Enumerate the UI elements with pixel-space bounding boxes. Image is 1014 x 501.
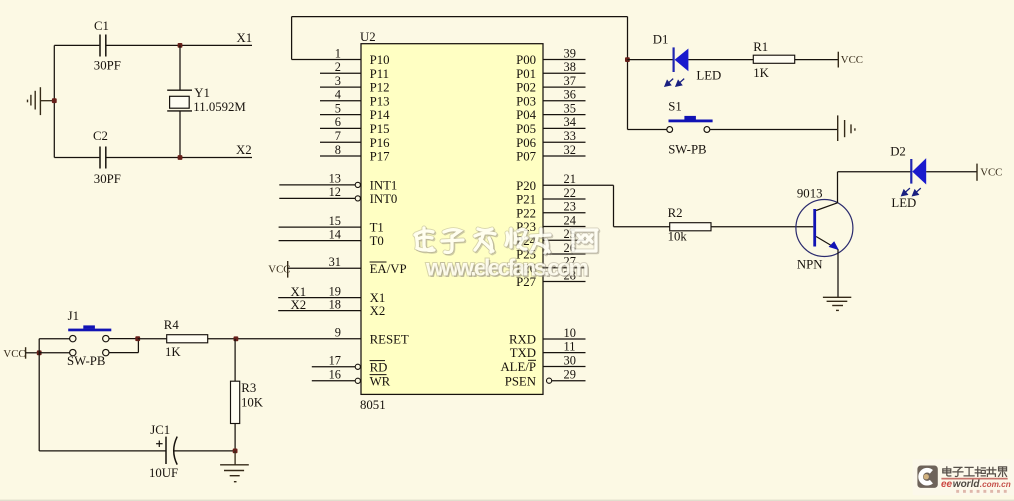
value LED (D2)	[891, 196, 916, 210]
value 8051	[360, 398, 386, 412]
pin 15 T1	[279, 214, 384, 235]
value 30PF (C2)	[94, 172, 121, 186]
label D1	[653, 33, 669, 47]
svg-text:X2: X2	[370, 304, 386, 318]
wire J1 left vertical down	[38, 353, 40, 451]
svg-text:X1: X1	[291, 285, 307, 299]
svg-text:1: 1	[335, 46, 341, 60]
svg-text:P05: P05	[516, 122, 536, 136]
svg-text:10K: 10K	[241, 396, 264, 410]
value 1K (R4)	[165, 345, 181, 359]
svg-text:J1: J1	[68, 309, 79, 323]
junction J1 left	[37, 350, 42, 355]
wire P10 net top horizontal	[292, 16, 628, 18]
logo eeworld C mark	[917, 466, 937, 488]
svg-text:T0: T0	[370, 234, 384, 248]
pin 39 P00	[516, 46, 585, 67]
svg-text:C1: C1	[94, 19, 109, 33]
junction X2-Y1	[178, 155, 183, 160]
svg-text:INT0: INT0	[370, 192, 398, 206]
watermark text 1 (site name, decorative not labelled individually)	[415, 228, 598, 254]
ground GND3 (below Q1)	[823, 297, 851, 310]
pin 37 P02	[516, 74, 585, 95]
svg-text:2: 2	[335, 60, 341, 74]
wire R4 to RESET junction	[208, 338, 236, 340]
wire R3 to bottom junction	[234, 424, 236, 451]
svg-text:U2: U2	[360, 30, 376, 44]
svg-text:4: 4	[335, 88, 341, 102]
wire J1 top-right to junction	[109, 338, 138, 340]
pin 24 P23	[516, 213, 585, 234]
node X1 (net label)	[237, 31, 253, 45]
svg-text:P02: P02	[516, 81, 536, 95]
resistor R4	[167, 335, 208, 343]
svg-text:SW-PB: SW-PB	[668, 143, 706, 157]
svg-text:ee: ee	[941, 479, 953, 490]
svg-text:ALE/P: ALE/P	[500, 360, 536, 374]
svg-text:P03: P03	[516, 94, 536, 108]
logo eeworld red underline	[941, 478, 1007, 480]
pin 26 P25	[516, 241, 585, 262]
pin 4 P13	[320, 88, 390, 109]
wire to J1 top-left pin	[39, 338, 69, 340]
junction X1-Y1	[178, 43, 183, 48]
value 11.0592M	[193, 100, 246, 114]
logo eeworld slogan dots	[956, 490, 1007, 493]
wire X2 bottom segment left	[54, 157, 99, 159]
label 9013 (Q1)	[797, 186, 823, 200]
svg-text:1K: 1K	[753, 66, 769, 80]
wire X1 top segment left	[54, 44, 99, 46]
wire X1 top segment right	[106, 44, 252, 46]
pin 1 P10	[292, 46, 390, 67]
bottom edge shade	[0, 500, 1014, 501]
pin 21 P20	[516, 172, 585, 193]
svg-text:8051: 8051	[360, 398, 386, 412]
logo eeworld url	[941, 479, 1011, 490]
ground GND4 (below R3)	[220, 451, 249, 482]
label R1	[753, 40, 768, 54]
wire X2 bottom segment right	[106, 157, 252, 159]
switch J1 (SW-PB 4-pin)	[68, 325, 111, 355]
svg-text:Y1: Y1	[194, 86, 210, 100]
wire P20 net vertical	[613, 185, 615, 226]
pin 17 RD	[312, 354, 388, 375]
value LED (D1)	[696, 68, 721, 82]
resistor R3	[231, 381, 240, 423]
pin 2 P11	[320, 60, 389, 81]
svg-text:3: 3	[335, 74, 341, 88]
node X2 (net label)	[236, 143, 252, 157]
wire P10 net right vertical down to S1	[627, 17, 629, 130]
value 10k (R2)	[668, 230, 688, 244]
wire VCC to J1 junction	[26, 352, 40, 354]
svg-text:RD: RD	[370, 360, 388, 374]
pin 27 P26	[516, 255, 585, 276]
pin 7 P16	[320, 129, 390, 150]
ground GND2 (right of S1)	[838, 115, 855, 141]
value 30PF (C1)	[94, 58, 121, 72]
svg-text:LED: LED	[891, 196, 916, 210]
pin 38 P01	[516, 60, 585, 81]
wire J1 bottom-right jog	[109, 339, 138, 353]
wire Q1 emitter vertical	[837, 250, 839, 298]
svg-text:LED: LED	[696, 68, 721, 82]
svg-text:P07: P07	[516, 150, 537, 164]
label S1	[668, 99, 682, 113]
wire collector to D2	[838, 171, 912, 173]
capacitor JC1 (electrolytic)	[156, 437, 177, 465]
wire Q1 collector vertical	[837, 172, 839, 203]
wire junction to D1	[627, 59, 673, 61]
junction RESET/R3	[234, 336, 239, 341]
node X1 (chip side net label)	[291, 285, 307, 299]
crystal Y1	[167, 90, 192, 111]
label C2	[93, 129, 108, 143]
pin 8 P17	[320, 143, 390, 164]
diode D1 (LED)	[674, 47, 689, 72]
pin 10 RXD	[509, 326, 586, 347]
svg-text:32: 32	[564, 143, 576, 157]
wire junction down to R3	[234, 339, 236, 381]
label R3	[241, 381, 256, 395]
pin 18 X2	[278, 297, 385, 318]
capacitor C2	[100, 147, 106, 169]
svg-text:P22: P22	[516, 206, 536, 220]
svg-text:10k: 10k	[668, 230, 688, 244]
wire Y1 top lead	[179, 45, 181, 90]
pin 29 PSEN	[505, 368, 586, 389]
label C1	[94, 19, 109, 33]
svg-text:X2: X2	[236, 143, 252, 157]
svg-text:INT1: INT1	[370, 179, 398, 193]
svg-text:1K: 1K	[165, 345, 181, 359]
value 1K (R1)	[753, 66, 769, 80]
svg-text:18: 18	[329, 297, 341, 311]
svg-text:21: 21	[564, 172, 576, 186]
wire P10 net vertical at pin 1	[291, 17, 293, 60]
svg-text:23: 23	[564, 200, 576, 214]
wire D2 to VCC	[926, 171, 977, 173]
svg-text:11: 11	[564, 339, 576, 353]
pin 30 ALE/P	[500, 353, 585, 374]
svg-text:JC1: JC1	[150, 423, 170, 437]
pin 3 P12	[320, 74, 390, 95]
svg-text:5: 5	[335, 101, 341, 115]
svg-text:P17: P17	[370, 150, 391, 164]
svg-text:P16: P16	[370, 136, 391, 150]
svg-text:17: 17	[329, 354, 341, 368]
value 10K (R3)	[241, 396, 264, 410]
svg-text:38: 38	[564, 60, 576, 74]
wire net XTAL left vertical	[53, 45, 55, 157]
wire to J1 bottom-left pin	[39, 352, 69, 354]
svg-text:R4: R4	[164, 318, 180, 332]
svg-text:P06: P06	[516, 136, 537, 150]
svg-text:12: 12	[329, 185, 341, 199]
switch S1 (SW-PB)	[667, 116, 713, 132]
svg-text:R3: R3	[241, 381, 256, 395]
svg-text:C2: C2	[93, 129, 108, 143]
pin 33 P06	[516, 129, 585, 150]
junction D1 tap	[625, 57, 630, 62]
pin 35 P04	[516, 101, 585, 122]
svg-text:36: 36	[564, 88, 576, 102]
svg-text:22: 22	[564, 186, 576, 200]
svg-text:11.0592M: 11.0592M	[193, 100, 246, 114]
pin 9 RESET	[236, 326, 409, 347]
svg-text:7: 7	[335, 129, 341, 143]
pin 16 WR	[312, 368, 391, 389]
resistor R1	[753, 55, 794, 63]
svg-text:R2: R2	[668, 206, 683, 220]
svg-text:S1: S1	[668, 99, 682, 113]
wire bottom rail to JC1	[39, 450, 166, 452]
svg-text:34: 34	[564, 115, 576, 129]
svg-text:15: 15	[329, 214, 341, 228]
svg-text:9013: 9013	[797, 186, 823, 200]
svg-text:16: 16	[329, 368, 341, 382]
svg-text:VCC: VCC	[3, 348, 25, 360]
svg-text:6: 6	[335, 115, 341, 129]
svg-text:P12: P12	[370, 81, 390, 95]
wire R1 to VCC	[795, 59, 839, 61]
value 10UF (JC1)	[149, 466, 178, 480]
pin 11 TXD	[510, 339, 586, 360]
pin 22 P21	[516, 186, 585, 207]
pin 5 P14	[320, 101, 390, 122]
svg-text:D1: D1	[653, 33, 669, 47]
svg-text:RESET: RESET	[370, 332, 409, 346]
node X2 (chip side net label)	[291, 298, 307, 312]
svg-text:19: 19	[329, 284, 341, 298]
svg-text:T1: T1	[370, 221, 384, 235]
ground GND1 (left of crystal)	[28, 87, 55, 115]
diode D2 (LED)	[911, 158, 926, 184]
svg-text:30PF: 30PF	[94, 172, 121, 186]
pin 34 P05	[516, 115, 585, 136]
svg-text:R1: R1	[753, 40, 768, 54]
svg-text:D2: D2	[890, 145, 906, 159]
svg-text:www.elecfans.com: www.elecfans.com	[425, 254, 589, 280]
wire S1 to ground	[710, 129, 838, 131]
svg-text:RXD: RXD	[509, 333, 536, 347]
svg-text:35: 35	[564, 101, 576, 115]
label Y1	[194, 86, 210, 100]
svg-text:29: 29	[564, 368, 576, 382]
svg-text:P20: P20	[516, 179, 536, 193]
label D2	[890, 145, 906, 159]
svg-text:X2: X2	[291, 298, 307, 312]
wire JC1 to ground junction	[174, 450, 235, 452]
LED arrows D1	[665, 79, 684, 87]
power VCC (EA/VP pin 31)	[268, 261, 290, 278]
svg-text:10UF: 10UF	[149, 466, 178, 480]
pin 25 P24	[516, 227, 585, 248]
pin 19 X1	[278, 284, 385, 305]
power VCC (D2)	[977, 164, 1002, 181]
watermark text 2 (url)	[425, 254, 591, 281]
svg-text:WR: WR	[370, 374, 391, 388]
junction J1 right	[135, 336, 140, 341]
power VCC (R1)	[838, 52, 863, 68]
value NPN (Q1)	[797, 258, 823, 272]
wire R2 to Q1 base	[711, 226, 813, 228]
label R4	[164, 318, 180, 332]
svg-text:14: 14	[329, 227, 341, 241]
pin 6 P15	[320, 115, 390, 136]
svg-text:X1: X1	[370, 291, 386, 305]
svg-text:VCC: VCC	[980, 166, 1002, 178]
svg-text:30: 30	[564, 353, 576, 367]
pin 13 INT1	[279, 172, 397, 193]
svg-text:P11: P11	[370, 67, 389, 81]
svg-text:EA/VP: EA/VP	[370, 262, 407, 276]
svg-text:8: 8	[335, 143, 341, 157]
svg-text:world: world	[953, 479, 981, 490]
wire vertical to S1	[628, 129, 667, 131]
value SW-PB (S1)	[668, 143, 706, 157]
pin 14 T0	[279, 227, 384, 248]
svg-text:31: 31	[329, 255, 341, 269]
wire P20 net to R2	[614, 226, 670, 228]
op-amp U2 body (8051 MCU rectangle)	[361, 44, 543, 395]
svg-text:PSEN: PSEN	[505, 374, 536, 388]
pin 28 P27	[516, 268, 585, 289]
label R2	[668, 206, 683, 220]
wire P20 net horizontal	[586, 184, 614, 186]
svg-text:30PF: 30PF	[94, 58, 121, 72]
wire VCC to pin 31	[288, 267, 361, 269]
value SW-PB (J1)	[67, 354, 105, 368]
junction R3/JC1/ground	[233, 449, 238, 454]
logo eeworld chinese title	[943, 467, 1007, 477]
resistor R2	[670, 223, 711, 231]
pin 23 P22	[516, 200, 585, 221]
wire J1 to R4	[138, 338, 167, 340]
svg-text:SW-PB: SW-PB	[67, 354, 105, 368]
label JC1	[150, 423, 170, 437]
svg-text:P14: P14	[370, 108, 391, 122]
wire D1 to R1	[688, 59, 753, 61]
wire J1 left vertical up	[38, 339, 40, 353]
svg-text:P13: P13	[370, 94, 390, 108]
svg-text:P01: P01	[516, 67, 536, 81]
power VCC (J1)	[3, 347, 25, 360]
svg-text:VCC: VCC	[841, 54, 863, 66]
wire Y1 bottom lead	[179, 111, 181, 158]
logo eeworld background	[913, 459, 1014, 495]
svg-text:37: 37	[564, 74, 576, 88]
svg-text:13: 13	[329, 172, 341, 186]
pin 31 EA/VP	[329, 255, 407, 276]
label U2	[360, 30, 376, 44]
capacitor C1	[100, 35, 106, 57]
svg-text:TXD: TXD	[510, 346, 536, 360]
svg-text:P10: P10	[370, 53, 390, 67]
svg-text:33: 33	[564, 129, 576, 143]
svg-text:P15: P15	[370, 122, 390, 136]
label J1	[68, 309, 79, 323]
LED arrows D2	[902, 188, 921, 196]
svg-text:X1: X1	[237, 31, 253, 45]
pin 32 P07	[516, 143, 585, 164]
transistor Q1 9013	[796, 200, 853, 257]
svg-text:P21: P21	[516, 193, 536, 207]
svg-text:NPN: NPN	[797, 258, 823, 272]
svg-text:9: 9	[335, 326, 341, 340]
svg-text:24: 24	[564, 213, 576, 227]
junction ground-XTAL	[52, 98, 57, 103]
svg-text:.com.cn: .com.cn	[980, 480, 1011, 489]
svg-text:39: 39	[564, 46, 576, 60]
svg-text:10: 10	[564, 326, 576, 340]
pin 12 INT0	[279, 185, 397, 206]
pin 36 P03	[516, 88, 585, 109]
svg-text:P00: P00	[516, 53, 536, 67]
svg-text:P04: P04	[516, 108, 537, 122]
